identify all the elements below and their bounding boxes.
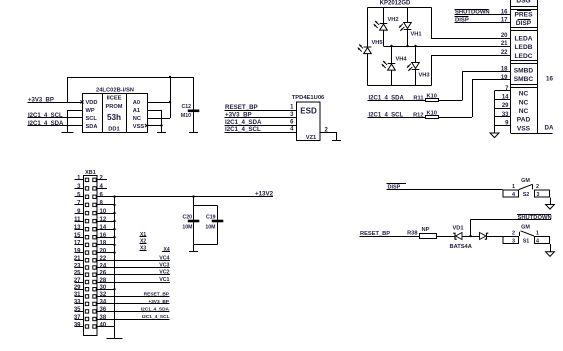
junction VH3 mid rail (414, 45, 416, 47)
XB1 pin 36 contact (93, 310, 96, 313)
svg-text:11: 11 (74, 217, 81, 223)
XB1 pin 37 contact (85, 317, 88, 320)
svg-text:VH3: VH3 (419, 73, 430, 79)
svg-text:1: 1 (77, 176, 81, 182)
wire XB1 pin 36 (98, 311, 170, 312)
svg-text:SDA: SDA (86, 124, 98, 130)
net label X2 (140, 239, 147, 245)
XB1 pin 13 contact (85, 228, 88, 231)
junction XB1 pin 10 on ground bus (113, 212, 115, 214)
ground arrow S2 (546, 205, 555, 210)
svg-text:GM: GM (521, 225, 530, 231)
wire XB1 pin 8 (98, 204, 115, 205)
wire LED mid rail to pin 21 (384, 46, 511, 47)
XB1 pin 17 contact (85, 243, 88, 246)
junction XB1 pin 16 on ground bus (113, 236, 115, 238)
wire LEDA to pin 20 (431, 38, 511, 39)
wire A0 to rail (148, 102, 170, 103)
wire XB1 pin 15 stub (75, 237, 84, 238)
svg-text:2: 2 (512, 231, 515, 237)
wire pin 7 NC (495, 90, 511, 91)
svg-text:DD1: DD1 (108, 127, 119, 133)
svg-text:33: 33 (74, 300, 81, 306)
wire WP to ground (67, 110, 82, 133)
svg-text:VSS: VSS (517, 125, 531, 132)
svg-text:DSG: DSG (516, 0, 530, 5)
wire XB1 pin 31 stub (75, 296, 84, 297)
svg-text:18: 18 (100, 241, 107, 247)
XB1 pin 11 contact (85, 219, 88, 222)
IC DA1 pin name column (510, 0, 553, 134)
svg-text:19: 19 (501, 75, 508, 81)
ground A1/VSS (157, 132, 166, 133)
svg-text:2: 2 (536, 184, 539, 190)
svg-text:VH4: VH4 (396, 57, 408, 63)
wire RESET_BP to pin 1 (225, 110, 297, 111)
svg-text:4: 4 (290, 127, 294, 133)
svg-text:28: 28 (100, 278, 107, 284)
wire pin 29 NC (495, 108, 511, 109)
XB1 pin 30 contact (93, 288, 96, 291)
XB1 pin 19 contact (85, 251, 88, 254)
svg-text:1: 1 (512, 184, 515, 190)
svg-text:SHUTDOWN: SHUTDOWN (518, 215, 552, 221)
svg-text:VH2: VH2 (388, 17, 399, 23)
LED VH3 (407, 63, 419, 71)
wire XB1 pin 20 (98, 252, 115, 253)
svg-text:16: 16 (100, 233, 107, 239)
wire XB1 pin 29 stub (75, 289, 84, 290)
svg-text:IICEE: IICEE (107, 96, 122, 102)
svg-text:SMBC: SMBC (514, 76, 534, 83)
XB1 pin 5 contact (85, 195, 88, 198)
svg-text:17: 17 (74, 241, 81, 247)
svg-text:18: 18 (501, 66, 508, 72)
svg-text:VC1: VC1 (159, 277, 169, 283)
svg-text:14: 14 (100, 225, 107, 231)
ground XB1 bus (107, 338, 123, 339)
ground WP (62, 132, 74, 133)
wire XB1 pin 3 stub (75, 188, 84, 189)
wire R11 riser to pin 18 (462, 71, 511, 100)
junction SHUTDOWN riser (469, 235, 471, 237)
svg-text:36: 36 (100, 307, 107, 313)
wire VH4 top lead (391, 46, 392, 64)
wire riser to SHUTDOWN (470, 219, 551, 236)
wire XB1 pin 23 stub (75, 267, 84, 268)
IC DD1 24LC02B-I/SN EEPROM body (83, 88, 148, 134)
ground arrow DA1 (490, 133, 499, 138)
svg-text:39: 39 (74, 322, 81, 328)
wire R11 to riser (439, 100, 463, 101)
wire XB1 pin 37 stub (75, 319, 84, 320)
svg-text:22: 22 (100, 256, 107, 262)
svg-text:S1: S1 (523, 239, 530, 245)
wire VH1 top lead (407, 8, 408, 23)
wire LED right edge bottom to LEDC (431, 55, 432, 86)
wire LED right edge top to LEDA (431, 8, 432, 39)
svg-text:37: 37 (74, 315, 81, 321)
svg-text:4: 4 (512, 192, 515, 198)
wire top supply rail (67, 77, 194, 78)
junction C20 at +13V2 (192, 195, 194, 197)
svg-text:VZ1: VZ1 (306, 135, 316, 141)
svg-text:8: 8 (100, 201, 104, 207)
svg-text:4: 4 (536, 239, 539, 245)
svg-text:20: 20 (501, 33, 508, 39)
wire NC ground bus (494, 91, 495, 133)
svg-text:16: 16 (546, 76, 553, 83)
svg-text:2: 2 (100, 176, 104, 182)
svg-text:29: 29 (502, 103, 509, 109)
wire S1 to ground (550, 244, 551, 252)
svg-text:14: 14 (502, 95, 509, 101)
wire C19 bottom link (194, 244, 218, 245)
XB1 pin 39 contact (85, 325, 88, 328)
wire NC to rail drop (148, 118, 170, 119)
wire XB1 pin 6 (98, 196, 274, 197)
wire pin 14 NC (495, 99, 511, 100)
svg-text:3: 3 (77, 184, 81, 190)
wire XB1 pin 1 stub (75, 179, 84, 180)
svg-text:R38: R38 (407, 230, 417, 236)
net label X4 (162, 247, 170, 253)
junction XB1 pin 8 on ground bus (113, 204, 115, 206)
svg-text:12: 12 (100, 217, 107, 223)
wire pin 33 PAD (495, 116, 511, 117)
wire diode to S1 (487, 236, 503, 237)
wire DISP to S2 (387, 189, 503, 190)
wire SHUTDOWN to pin 16 (455, 14, 511, 15)
wire VH4 bottom lead (391, 70, 392, 85)
svg-text:NC: NC (519, 91, 529, 98)
svg-text:I2C1_4_SDA: I2C1_4_SDA (141, 307, 170, 313)
wire R12 to riser (439, 117, 472, 118)
svg-text:DISP: DISP (516, 20, 532, 27)
svg-text:LEDC: LEDC (515, 53, 533, 60)
svg-text:31: 31 (74, 292, 81, 298)
resistor R38 (407, 227, 436, 238)
wire I2C1_4_SDA to R11 (368, 100, 426, 101)
junction XB1 pin 18 on ground bus (113, 244, 115, 246)
svg-text:C19: C19 (206, 215, 216, 221)
svg-text:VH5: VH5 (372, 40, 383, 46)
wire rail drop right (170, 77, 171, 118)
svg-text:10M: 10M (182, 224, 192, 230)
junction XB1 pin 30 on ground bus (113, 288, 115, 290)
wire VH2 top lead (383, 8, 384, 24)
wire +3V3_BP to pin 3 (225, 117, 297, 118)
wire LED left edge lower (367, 54, 368, 86)
ground VZ1 pin 2 (332, 140, 341, 141)
svg-text:34: 34 (100, 300, 107, 306)
wire XB1 pin 40 (98, 326, 115, 327)
svg-text:25: 25 (74, 271, 81, 277)
capacitor C12 (181, 77, 199, 133)
svg-text:26: 26 (100, 271, 107, 277)
pin name PRES with overline (515, 10, 534, 19)
svg-text:WP: WP (86, 108, 95, 114)
XB1 pin 16 contact (93, 236, 96, 239)
wire LED bottom rail (368, 85, 432, 86)
svg-text:PAD: PAD (517, 117, 531, 124)
svg-text:+3V3_BP: +3V3_BP (148, 299, 169, 305)
wire XB1 pin 17 stub (75, 244, 84, 245)
wire I2C1_4_SCL to R12 (368, 117, 426, 118)
ground C12 (189, 132, 198, 133)
wire LED top rail (368, 7, 432, 8)
net label DISP with overline (455, 16, 469, 24)
junction rail drop at top rail (169, 76, 171, 78)
resistor R11 (413, 93, 438, 101)
wire XB1 pin 25 stub (75, 274, 84, 275)
wire VH3 bottom lead (415, 70, 416, 86)
svg-text:I2C1_4_SDA: I2C1_4_SDA (225, 119, 262, 126)
wire XB1 pin 14 (98, 229, 115, 230)
net label SHUTDOWN bottom with overline (517, 214, 552, 221)
svg-text:PRES: PRES (515, 12, 534, 19)
svg-text:C20: C20 (182, 215, 192, 221)
junction XB1 pin 20 on ground bus (113, 251, 115, 253)
wire XB1 pin 18 (98, 244, 115, 245)
XB1 pin 3 contact (85, 187, 88, 190)
svg-text:VC2: VC2 (159, 270, 169, 276)
junction bus at +13V2 wire (113, 195, 115, 197)
svg-text:SCL: SCL (86, 116, 98, 122)
svg-text:13: 13 (74, 225, 81, 231)
wire LEDC to pin 22 (431, 55, 511, 56)
XB1 pin 12 contact (93, 219, 96, 222)
XB1 pin 9 contact (85, 211, 88, 214)
svg-text:NP: NP (422, 227, 430, 233)
pin marker x at VSS (145, 124, 148, 127)
svg-text:R11: R11 (413, 95, 423, 101)
svg-text:21: 21 (74, 256, 81, 262)
junction VH4 mid rail (390, 45, 392, 47)
junction XB1 pin 14 on ground bus (113, 228, 115, 230)
svg-text:X4: X4 (164, 247, 170, 253)
XB1 pin 20 contact (93, 251, 96, 254)
svg-text:A0: A0 (133, 100, 140, 106)
LED VH5 (358, 44, 372, 53)
junction VH1 mid rail (406, 45, 408, 47)
svg-text:KP2012GD: KP2012GD (380, 1, 411, 7)
ground C20 (189, 251, 198, 252)
wire LED left edge upper (367, 8, 368, 48)
XB1 pin 38 contact (93, 317, 96, 320)
XB1 pin 23 contact (85, 266, 88, 269)
svg-text:PROM: PROM (105, 104, 122, 110)
svg-text:4: 4 (100, 184, 104, 190)
svg-text:3: 3 (512, 239, 515, 245)
capacitor C19 (205, 206, 223, 245)
connector XB1 body (84, 170, 98, 336)
wire XB1 pin 19 stub (75, 252, 84, 253)
XB1 pin 32 contact (93, 295, 96, 298)
wire XB1 pin 39 stub (75, 326, 84, 327)
net label DISP with overline (387, 183, 407, 191)
XB1 pin 15 contact (85, 236, 88, 239)
svg-text:20: 20 (100, 248, 107, 254)
svg-text:15: 15 (74, 233, 81, 239)
wire XB1 pin 24 (98, 267, 171, 268)
wire RESET_BP to R38 (360, 236, 420, 237)
svg-text:24LC02B-I/SN: 24LC02B-I/SN (96, 88, 134, 94)
wire XB1 ground bus (114, 197, 115, 338)
wire XB1 pin 34 (98, 303, 170, 304)
pin name DISP with overline (516, 19, 532, 27)
svg-text:16: 16 (501, 10, 508, 16)
svg-text:17: 17 (501, 18, 508, 24)
wire +3V3_BP to VDD (28, 102, 83, 103)
svg-text:A1: A1 (133, 108, 140, 114)
wire R12 riser to pin 19 (472, 79, 511, 117)
net label SHUTDOWN with overline (455, 9, 490, 16)
ground arrow S1 (546, 252, 555, 257)
svg-text:DA: DA (545, 125, 554, 132)
wire XB1 pin 33 stub (75, 303, 84, 304)
wire pin 2 to ground (321, 132, 338, 140)
XB1 pin 4 contact (93, 187, 96, 190)
svg-text:7: 7 (77, 201, 81, 207)
svg-text:ESD: ESD (300, 107, 317, 116)
junction A0 (169, 101, 171, 103)
XB1 pin 27 contact (85, 280, 88, 283)
svg-text:RESET_BP: RESET_BP (144, 291, 170, 297)
XB1 pin 2 contact (93, 178, 96, 181)
wire XB1 pin 5 stub (75, 196, 84, 197)
svg-text:LEDA: LEDA (515, 36, 533, 43)
wire I2C1_4_SDA to pin 6 (225, 125, 297, 126)
XB1 pin 35 contact (85, 310, 88, 313)
wire XB1 pin 26 (98, 274, 171, 275)
XB1 pin 10 contact (93, 211, 96, 214)
IC VZ1 TPD4E1U06 body (292, 95, 325, 141)
XB1 pin 25 contact (85, 273, 88, 276)
svg-text:VC3: VC3 (159, 263, 169, 269)
diode VD1.2 (480, 233, 489, 240)
wire S2 to ground (550, 198, 551, 205)
wire XB1 pin 35 stub (75, 311, 84, 312)
svg-text:LEDB: LEDB (515, 44, 533, 51)
svg-text:C12: C12 (181, 104, 191, 110)
wire XB1 pin 4 (98, 188, 108, 189)
svg-text:NC: NC (519, 99, 529, 106)
svg-text:32: 32 (100, 292, 107, 298)
XB1 pin 22 contact (93, 259, 96, 262)
svg-text:R12: R12 (413, 112, 423, 118)
XB1 pin 33 contact (85, 302, 88, 305)
XB1 pin 29 contact (85, 288, 88, 291)
svg-text:27: 27 (74, 278, 81, 284)
svg-text:53h: 53h (107, 113, 121, 122)
wire XB1 pin 38 (98, 319, 170, 320)
XB1 pin 6 contact (93, 195, 96, 198)
wire +13V2 extension (115, 196, 274, 197)
capacitor C20 (182, 197, 199, 251)
wire XB1 pin 21 stub (75, 260, 84, 261)
svg-text:10M: 10M (205, 224, 215, 230)
XB1 pin 31 contact (85, 295, 88, 298)
wire XB1 pin 7 stub (75, 204, 84, 205)
net label X3 (140, 246, 147, 252)
LED VH2 (374, 21, 388, 30)
svg-text:38: 38 (100, 315, 107, 321)
wire XB1 pin 10 (98, 213, 115, 214)
XB1 pin 24 contact (93, 266, 96, 269)
wire I2C1_4_SCL to pin 4 (225, 132, 297, 133)
svg-text:35: 35 (74, 307, 81, 313)
svg-text:S2: S2 (523, 192, 530, 198)
junction XB1 pin 12 on ground bus (113, 220, 115, 222)
svg-text:K10: K10 (427, 93, 437, 99)
XB1 pin 21 contact (85, 259, 88, 262)
resistor R12 (413, 110, 438, 118)
XB1 pin 7 contact (85, 203, 88, 206)
wire XB1 pin 12 (98, 221, 115, 222)
svg-text:10: 10 (100, 209, 107, 215)
svg-text:6: 6 (290, 120, 294, 126)
svg-text:19: 19 (74, 248, 81, 254)
svg-text:TPD4E1U06: TPD4E1U06 (292, 95, 325, 101)
XB1 pin 1 contact (85, 178, 88, 181)
wire XB1 pin 11 stub (75, 221, 84, 222)
wire A1 down (148, 110, 162, 133)
LED VH4 (382, 61, 396, 70)
svg-text:3: 3 (537, 192, 540, 198)
svg-text:22: 22 (501, 50, 508, 56)
LED VH1 (399, 23, 411, 31)
svg-text:XB1: XB1 (85, 170, 96, 176)
wire XB1 pin 9 stub (75, 213, 84, 214)
wire rail drop to VDD wire (67, 77, 68, 102)
wire I2C1_4_SCL to SCL (28, 117, 83, 118)
wire VH1 bottom lead (407, 30, 408, 46)
XB1 pin 8 contact (93, 203, 96, 206)
svg-text:6: 6 (100, 192, 104, 198)
svg-text:21: 21 (501, 41, 508, 47)
net label X1 (140, 232, 147, 238)
switch S2 (503, 178, 550, 198)
wire VH2 bottom lead (383, 30, 384, 46)
wire XB1 pin 16 (98, 237, 115, 238)
wire VH3 top lead (415, 46, 416, 63)
wire VD1 to junction (462, 236, 480, 237)
XB1 pin 40 contact (93, 325, 96, 328)
svg-text:29: 29 (74, 285, 81, 291)
wire XB1 pin 28 (98, 282, 171, 283)
wire DISP to pin 17 (455, 22, 511, 23)
wire XB1 pin 27 stub (75, 282, 84, 283)
svg-text:VH1: VH1 (411, 32, 422, 38)
switch S1 (503, 225, 550, 245)
svg-text:SMBD: SMBD (514, 67, 534, 74)
svg-text:GM: GM (521, 178, 530, 184)
wire XB1 pin 30 (98, 289, 115, 290)
svg-text:I2C1_4_SCL: I2C1_4_SCL (142, 314, 170, 320)
pin marker x at VDD (80, 100, 83, 103)
svg-text:VSS: VSS (133, 124, 145, 130)
svg-text:5: 5 (77, 193, 81, 199)
XB1 pin 34 contact (93, 302, 96, 305)
wire XB1 pin 13 stub (75, 229, 84, 230)
XB1 pin 14 contact (93, 228, 96, 231)
svg-text:24: 24 (100, 263, 107, 269)
wire I2C1_4_SDA to SDA (28, 125, 83, 126)
svg-text:30: 30 (100, 285, 107, 291)
wire R38 to VD1 (437, 236, 455, 237)
XB1 pin 28 contact (93, 280, 96, 283)
